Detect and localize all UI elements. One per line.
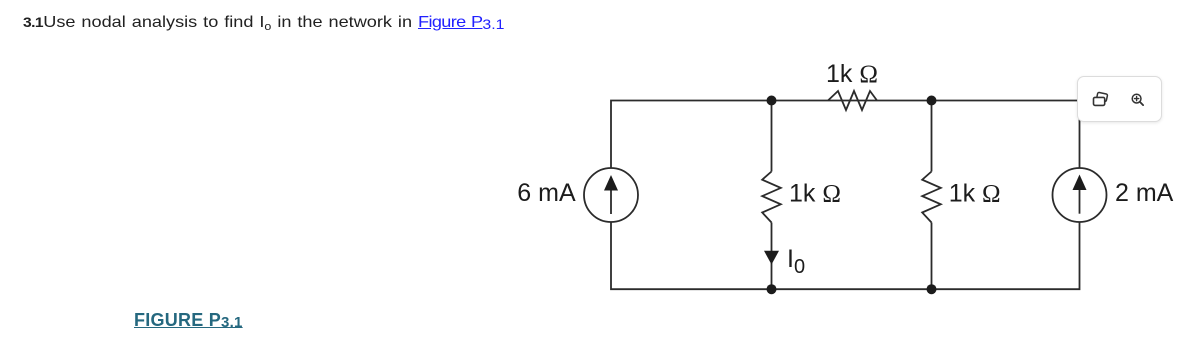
svg-text:1k Ω: 1k Ω	[826, 60, 878, 88]
wire branch2 lower	[931, 223, 933, 290]
current source I2 arrow	[1079, 189, 1081, 214]
svg-text:1k Ω: 1k Ω	[789, 179, 841, 207]
icon zoom-in	[1129, 91, 1147, 109]
current source I1 arrow	[610, 189, 612, 214]
svg-text:1k Ω: 1k Ω	[949, 179, 1001, 207]
svg-text:6 mA: 6 mA	[517, 179, 576, 207]
figure caption link	[134, 310, 243, 331]
wire bottom	[611, 222, 1080, 289]
node D bottom-right	[927, 284, 937, 294]
icon copy	[1091, 91, 1109, 109]
wire branch2 upper	[931, 101, 933, 172]
resistor R1 top 1k	[828, 91, 877, 110]
resistor R2 vertical left 1k	[762, 172, 781, 223]
node B top-right	[927, 96, 937, 106]
Io arrow	[764, 251, 779, 265]
node C bottom-left	[767, 284, 777, 294]
svg-text:2 mA: 2 mA	[1115, 179, 1174, 207]
node A top-left	[767, 96, 777, 106]
resistor R3 vertical right 1k	[922, 172, 941, 223]
problem statement text	[23, 14, 504, 32]
wire branch1 lower	[771, 223, 773, 290]
svg-text:I0: I0	[787, 245, 805, 278]
current source I2 2mA circle	[1053, 168, 1107, 222]
wire top	[611, 101, 1080, 169]
figure toolbar overlay	[1077, 76, 1162, 122]
current source I1 6mA circle	[584, 168, 638, 222]
wire branch1 upper	[771, 101, 773, 172]
